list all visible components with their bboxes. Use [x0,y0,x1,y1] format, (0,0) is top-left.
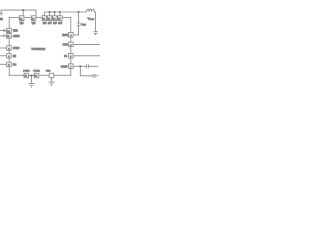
pin 18 box SW [53,16,57,21]
pin 11 box AGND [7,34,12,39]
svg-text:VIN: VIN [0,17,3,21]
pin 17 box SW [58,16,62,21]
wire SYNC [0,47,7,49]
IC U1 TPS62810 body [9,18,71,76]
pin 13 box VIN [31,16,36,21]
inductor L1 [87,9,96,12]
svg-text:PGD: PGD [63,45,68,47]
wire VIN stub to pin 14 [22,10,24,16]
capacitor CBST [77,23,81,25]
pin 1 box EN [7,54,12,59]
wire VIN input rail [1,10,37,16]
svg-text:VIN: VIN [32,23,36,25]
wire PGND ground drop [30,76,32,84]
wire COMP [73,65,86,67]
node SW bootstrap junction [78,11,80,13]
svg-text:SYNC: SYNC [13,48,20,50]
pin 7 box COMP [69,64,74,69]
wire AGND bypass left [0,35,4,37]
capacitor CC2 [93,74,95,78]
svg-text:VBST: VBST [62,35,69,37]
svg-text:VDD: VDD [13,31,18,33]
pin 5 box PGD [69,42,74,47]
wire SW stub 4 [59,12,61,16]
wire SW stub 3 [54,12,56,16]
wire bootstrap drop [78,12,80,23]
wire COMP branch B [80,66,93,76]
svg-text:VIN: VIN [20,23,24,25]
wire VDD bypass left [0,30,4,32]
svg-text:SW: SW [58,23,63,25]
wire PGD to right edge [73,43,100,45]
svg-text:SW: SW [53,23,58,25]
node PGND junction [30,75,32,77]
wire VBST connection [73,25,79,35]
pin 2 box SYNC [7,46,12,51]
wire COMP branch B end [95,75,98,77]
node COMP junction [79,65,81,67]
svg-text:SW: SW [43,23,48,25]
svg-text:FB: FB [64,56,67,58]
node SW junction 2 [49,11,51,13]
svg-text:PGND: PGND [33,71,40,73]
capacitor CC1 [87,64,89,68]
ground G2 [48,82,54,85]
svg-text:PAD: PAD [46,70,51,73]
pin 4 box VBST [69,33,74,38]
pin 15 box PGND [24,73,29,78]
wire SW rail [44,12,86,16]
wire PGND link [29,75,35,77]
node VIN junction [22,9,24,11]
ground G1 [28,83,34,87]
capacitor COUT [94,32,98,36]
svg-text:COMP: COMP [61,66,68,68]
wire PAD ground drop [51,78,53,82]
wire VOUT drop [95,12,97,31]
node SW junction 4 [59,11,61,13]
wire EN [0,55,7,57]
wire PG [0,63,7,65]
svg-text:AGND: AGND [13,35,20,38]
pin 6 box FB [69,54,74,59]
pin 14 box VIN [19,16,24,21]
svg-text:EN: EN [13,56,17,58]
wire SW stub 2 [49,12,51,16]
capacitor CVDD [4,29,5,32]
pin 8 box PG [7,62,12,67]
pin 16 box PGND [34,73,39,78]
capacitor CAGND [4,35,5,38]
node SW junction 3 [54,11,56,13]
wire COMP branch A end [88,65,98,67]
svg-text:PG: PG [13,65,17,67]
svg-text:PGND: PGND [23,71,30,73]
wire FB to right edge [73,55,100,57]
pin 20 box SW [42,16,46,21]
pin PAD box [49,73,54,78]
pin 12 box VDD [7,28,12,33]
svg-text:SW: SW [48,23,53,25]
svg-text:TPS62810: TPS62810 [31,47,46,51]
svg-text:OUT: OUT [90,19,95,21]
capacitor CIN (cut at left edge) [0,10,3,15]
svg-text:BST: BST [83,25,86,27]
pin 19 box SW [47,16,51,21]
